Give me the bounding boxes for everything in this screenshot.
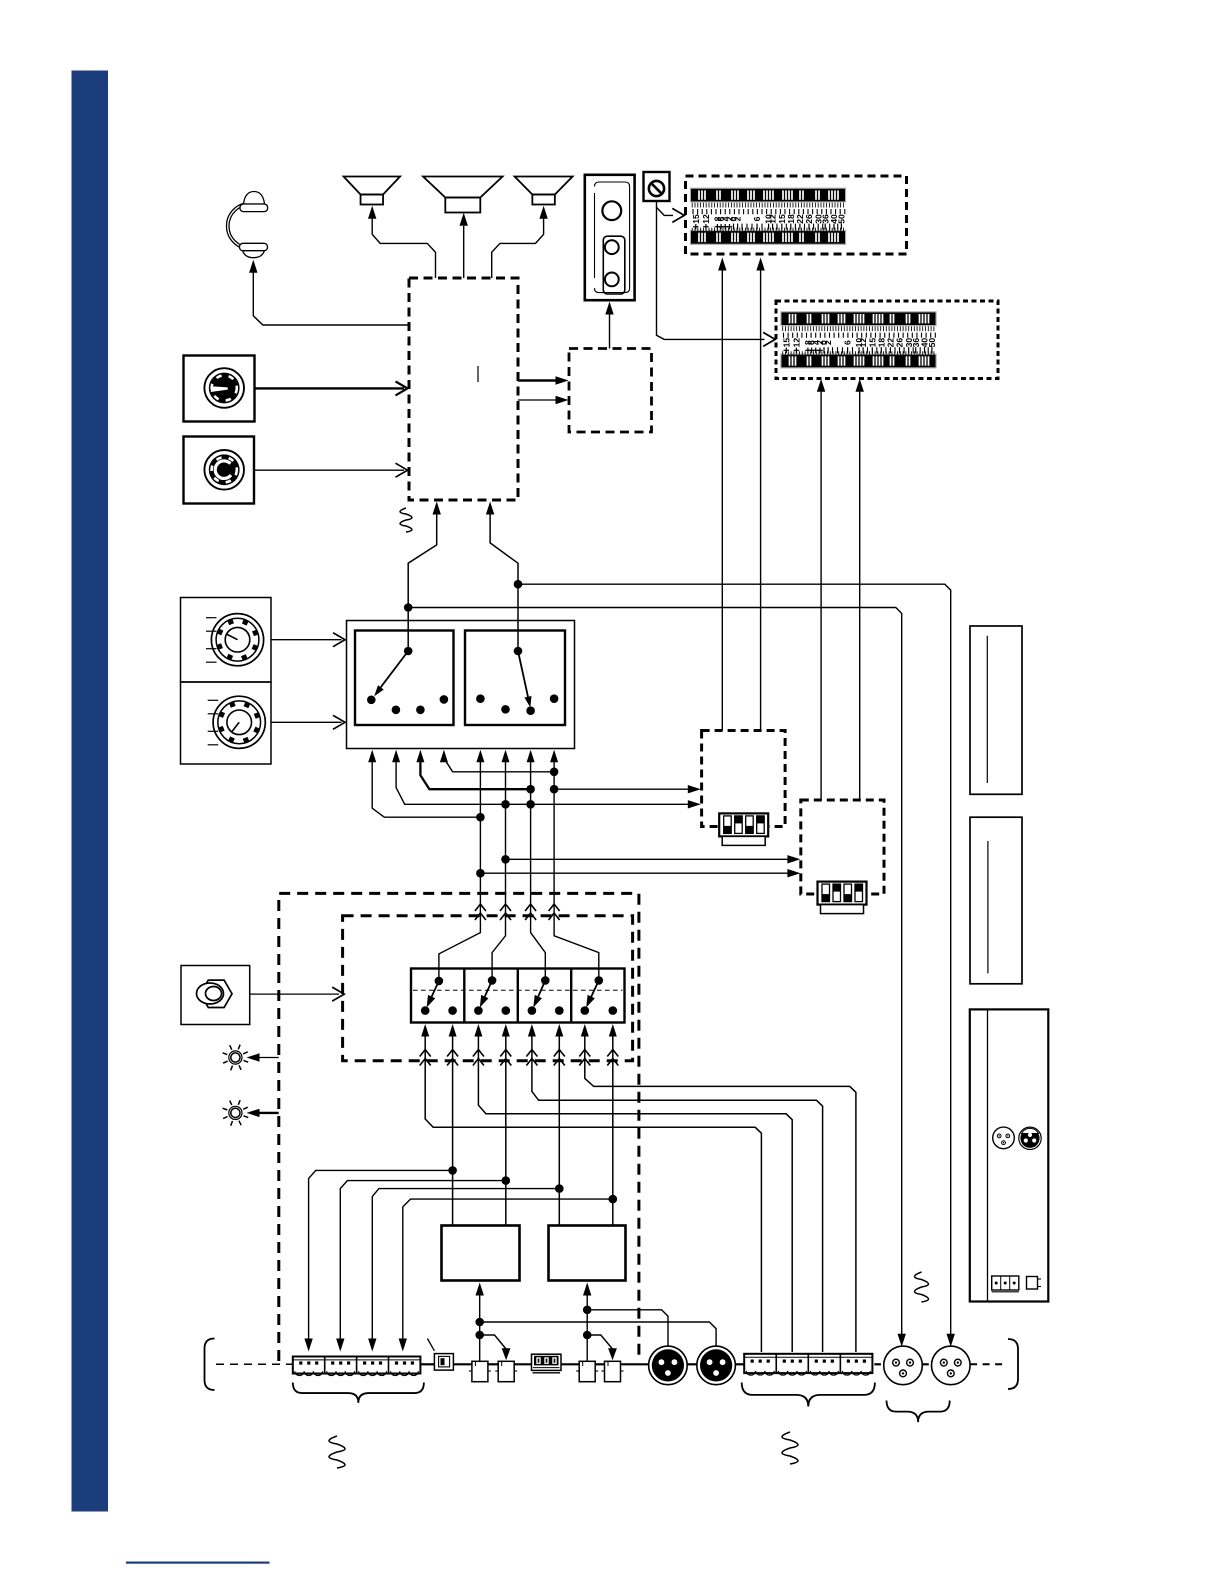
svg-text:12: 12 bbox=[792, 338, 802, 348]
svg-text:6: 6 bbox=[843, 340, 853, 345]
svg-text:50: 50 bbox=[927, 338, 937, 348]
svg-text:12: 12 bbox=[701, 214, 711, 224]
svg-text:2: 2 bbox=[733, 216, 743, 221]
svg-text:15: 15 bbox=[691, 214, 701, 224]
svg-text:6: 6 bbox=[752, 216, 762, 221]
svg-text:15: 15 bbox=[781, 338, 791, 348]
svg-text:50: 50 bbox=[837, 214, 847, 224]
svg-text:2: 2 bbox=[823, 340, 833, 345]
